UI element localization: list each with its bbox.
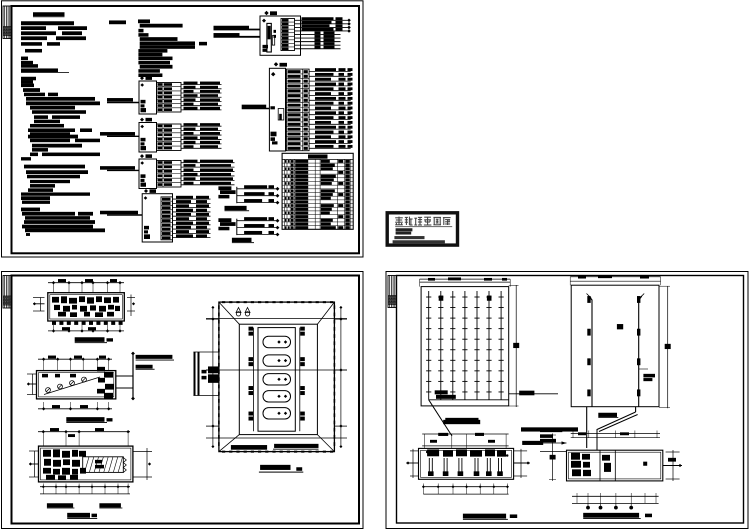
branch circuit wires from panel AL: [309, 72, 351, 149]
incoming wire to panel AL: [242, 105, 270, 109]
sheet 3 outer border frame: [386, 272, 748, 529]
breaker table in panel AL: [286, 69, 309, 151]
annex grounding plan top dimension: [571, 431, 660, 438]
plan 1 room outline: [48, 293, 125, 321]
sheet 1 outer border frame: [2, 1, 364, 257]
sheet 2 inner border frame: [12, 276, 360, 524]
panel AP4 label: [144, 189, 156, 193]
right down conductor: [637, 294, 644, 407]
feeder wire to panel AP3: [100, 166, 139, 170]
support insulators right row: [300, 327, 305, 421]
notes text column (design specification): [21, 12, 126, 236]
busbar in panel AP: [267, 23, 271, 52]
plan 1 bottom dimension line: [48, 325, 124, 333]
transformers in trench: [263, 336, 291, 419]
incoming service wires to panel AP: [199, 26, 260, 46]
plan 2 left dimension bracket: [32, 374, 34, 395]
distribution panel AP enclosure: [260, 16, 301, 55]
meter cluster in panel AP4: [144, 226, 150, 239]
plan 1 right dimension bracket: [127, 295, 135, 317]
grid plan right dimension line: [509, 285, 520, 407]
plan 3 equipment cluster: [43, 449, 86, 480]
annex plan caption: [583, 513, 652, 519]
sheet 2 title strip table: [3, 276, 12, 309]
panel AP1 enclosure: [139, 81, 157, 114]
down conductor continuation below roof: [587, 407, 638, 450]
plan 2 top dimension line: [38, 356, 112, 371]
room left dimension line: [206, 306, 219, 448]
meter cluster in panel AL: [271, 132, 278, 145]
panel AP4 enclosure: [142, 194, 172, 242]
building plan caption: [463, 514, 517, 520]
meter cluster in panel AP3: [141, 174, 147, 186]
breaker table in panel AP3: [157, 161, 182, 188]
plan 2 caption: [66, 417, 112, 423]
breaker table in panel AP: [281, 19, 295, 51]
building plan right bracket: [514, 449, 530, 478]
equipment material schedule table: [282, 153, 353, 229]
toilet wiring riser diagram 1: [218, 185, 279, 211]
sheet 1 inner border frame: [12, 6, 360, 253]
annex plan lower dimensions: [572, 493, 659, 510]
vent symbols top of room: [236, 308, 250, 316]
left down conductor: [587, 294, 593, 407]
branch labels of panel AP1: [184, 82, 221, 110]
building plan hatch columns: [428, 458, 503, 476]
downlead wire from grid to plan: [429, 400, 480, 436]
branch labels of panel AP4: [176, 196, 209, 238]
annex plan right bracket: [663, 450, 682, 481]
roof plan right dimension line: [659, 286, 671, 408]
plan 2 room outline: [37, 371, 116, 399]
branch labels of panel AP2: [184, 123, 221, 148]
lighting panel AL enclosure: [269, 68, 285, 151]
panel AL label: [274, 62, 287, 67]
breaker table in panel AP1: [157, 83, 182, 113]
design library stamp: [387, 213, 457, 245]
plan 3 sub captions: [47, 503, 123, 508]
switch symbol in panel AP4: [144, 196, 148, 200]
building grounding plan outline: [419, 448, 514, 479]
sheet 1 title strip table: [3, 6, 12, 39]
sheet 3 inner border frame: [397, 276, 744, 524]
roof plan top dimension lines: [570, 275, 660, 285]
feeder circuit labels of panel AP: [302, 17, 343, 48]
plan 3 lower dimension lines: [40, 484, 130, 494]
roof plan outline: [571, 285, 659, 407]
grid feeder wire right: [509, 391, 558, 396]
annex plan rooms: [571, 450, 647, 481]
breaker table in panel AP2: [157, 124, 182, 151]
breaker table in panel AP4: [161, 197, 173, 240]
branch circuit labels of panel AL: [315, 68, 353, 148]
transformer trench rectangle: [254, 328, 300, 432]
building grounding plan top dimensions: [422, 433, 508, 449]
plan 1 top dimension line: [48, 279, 124, 293]
plan 2 bottom dimension line: [38, 402, 112, 411]
plan 3 room outline: [39, 446, 133, 482]
plan 1 left dimension bracket: [40, 298, 42, 312]
main switch symbol in panel AP: [262, 19, 266, 23]
plan 3 top dimension line: [38, 428, 130, 446]
plan 2 annotation notes: [136, 355, 174, 370]
room internal captions: [231, 444, 319, 450]
room detail caption: [259, 465, 303, 473]
roof label: [617, 324, 623, 329]
branch wires from panel AP4: [173, 199, 211, 238]
switch symbol in panel AP3: [140, 161, 144, 165]
branch labels of panel AP3: [184, 160, 234, 185]
conductor note label: [639, 369, 655, 381]
branch wires from panel AP2: [181, 126, 222, 148]
panel AP3 label: [140, 154, 152, 158]
room right dimension line: [334, 306, 347, 448]
feeder wire to panel AP2: [100, 132, 139, 136]
second notes text column: [138, 19, 195, 77]
sheet 2 outer border frame: [2, 272, 364, 529]
panel AP2 label: [140, 118, 152, 122]
plan 2 luminaires and wiring: [42, 374, 100, 395]
meter cluster in panel AP1: [141, 100, 147, 112]
support insulators left row: [249, 327, 254, 421]
panel AP2 enclosure: [139, 123, 157, 153]
feeder wire to panel AP1: [107, 98, 139, 102]
plan 3 caption: [67, 513, 97, 519]
panel AP label: [264, 11, 277, 15]
grounding grid conductors: [426, 291, 509, 400]
panel AP1 label: [140, 76, 152, 80]
plan 3 left dimension bracket: [34, 451, 36, 477]
room inner wall outline: [206, 302, 347, 452]
branch wires from panel AP3: [181, 163, 235, 185]
main switch symbol in panel AL: [271, 72, 275, 76]
switch symbol in panel AP2: [140, 125, 144, 129]
transformer room detail plan outline: [218, 301, 335, 453]
feeder wire to panel AP4: [100, 211, 142, 215]
panel AP3 enclosure: [139, 159, 157, 189]
branch wires from panel AP1: [181, 85, 222, 110]
sheet 3 title strip table: [388, 276, 397, 308]
plan 3 generator hatched body: [83, 457, 127, 473]
riser line to notes: [116, 352, 135, 401]
switch symbol in panel AP1: [140, 83, 144, 87]
building plan left bracket: [406, 449, 418, 478]
leader label above building plan: [443, 420, 578, 445]
grid plan top dimension lines: [420, 277, 511, 286]
plan 3 right dimension bracket: [133, 448, 152, 480]
annex grounding plan outline: [567, 450, 663, 481]
building plan lower dimensions: [422, 484, 509, 495]
toilet wiring riser diagram 2: [218, 217, 279, 243]
plan 1 bottom wall hatch: [52, 321, 123, 325]
plan 1 equipment blobs: [52, 296, 120, 317]
plan 2 cable entry cluster: [97, 367, 114, 399]
feeder circuit wires from panel AP: [295, 19, 351, 49]
meter cluster in panel AP2: [141, 138, 147, 150]
building plan equipment row: [426, 449, 508, 456]
grid plan outline: [421, 287, 509, 406]
plan 1 caption: [75, 337, 113, 343]
meter symbols in panel AP: [263, 30, 277, 52]
annex plan left dimension line: [540, 428, 567, 481]
cable shaft annex at left: [193, 352, 219, 396]
current transformer at panel AL input: [270, 106, 283, 120]
